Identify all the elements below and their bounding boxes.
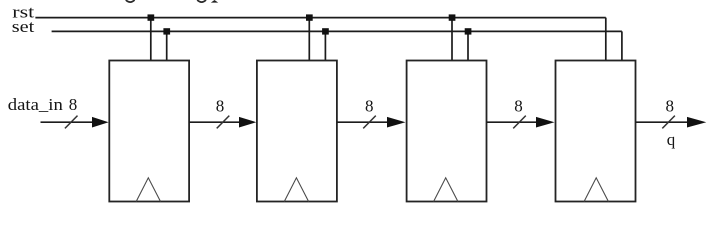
- register block U2: [257, 61, 337, 202]
- cropped descender fragment 2 (bottom of letter g): [197, 0, 206, 2]
- junction rst/block3: [449, 14, 456, 20]
- junction set/block2: [322, 28, 329, 34]
- junction rst/block1: [148, 14, 155, 20]
- arrowhead U3-U4: [536, 117, 555, 128]
- clock triangle U1: [136, 178, 160, 202]
- clock triangle U4: [584, 178, 608, 202]
- wire set drop to block1: [166, 31, 168, 60]
- wire set drop to block2: [324, 31, 326, 60]
- wire rst drop to block2: [308, 18, 310, 61]
- junction rst/block2: [306, 14, 313, 20]
- arrowhead data_in: [92, 117, 109, 128]
- svg-text:8: 8: [514, 97, 523, 116]
- register block U1: [109, 61, 189, 202]
- svg-text:8: 8: [365, 97, 374, 116]
- wire set end drop to block4: [621, 31, 623, 60]
- clock triangle U3: [434, 178, 458, 202]
- bus slash U3-U4: [513, 116, 526, 129]
- svg-text:8: 8: [216, 97, 225, 116]
- bus slash U2-U3: [363, 116, 376, 129]
- wire U1 to U2: [189, 121, 240, 123]
- wire q output: [636, 121, 689, 123]
- wire rst end drop to block4: [605, 18, 607, 61]
- svg-text:8: 8: [69, 95, 78, 114]
- register block U4: [556, 61, 636, 202]
- svg-text:data_in: data_in: [8, 95, 64, 114]
- register block U3: [407, 61, 487, 202]
- wire rst horizontal: [35, 17, 605, 19]
- wire U3 to U4: [487, 121, 538, 123]
- wire set drop to block3: [467, 31, 469, 60]
- wire data_in: [41, 121, 94, 123]
- arrowhead q: [687, 117, 706, 128]
- arrowhead U2-U3: [387, 117, 406, 128]
- wire U2 to U3: [337, 121, 388, 123]
- svg-text:8: 8: [665, 97, 674, 116]
- cropped descender fragment 1 (bottom of letter g): [126, 0, 135, 2]
- svg-text:q: q: [667, 130, 676, 149]
- cropped descender fragment 3 (bottom of letter p): [211, 0, 218, 3]
- arrowhead U1-U2: [239, 117, 256, 128]
- junction set/block3: [465, 28, 472, 34]
- wire rst drop to block3: [451, 18, 453, 61]
- bus slash q: [662, 116, 675, 129]
- bus slash U1-U2: [217, 116, 230, 129]
- bus slash data_in: [65, 116, 78, 129]
- wire set horizontal: [52, 30, 622, 32]
- clock triangle U2: [284, 178, 308, 202]
- wire rst drop to block1: [150, 18, 152, 61]
- svg-text:set: set: [12, 17, 35, 36]
- junction set/block1: [163, 28, 170, 34]
